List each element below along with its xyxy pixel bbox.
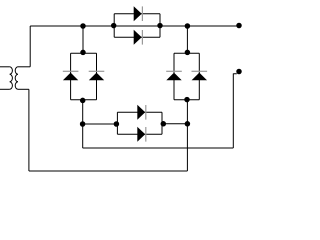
left arm frame (parallel diode pair branches) [71,53,97,100]
diode D6 (right arm right branch) [192,71,208,80]
diode D2 (top arm lower) [134,30,143,45]
wire left arm bottom to node A [82,100,84,148]
wire left vertical from top bus to transformer secondary top [29,26,31,67]
wire bottom arm right to right vertical [162,123,187,125]
bottom arm frame (parallel diode pair branches) [117,112,162,134]
wire primary top lead [0,66,10,68]
node: bottom arm left [114,121,120,127]
wire right vertical (right arm bottom to bottom bus) [186,100,188,171]
node: right arm bottom [184,97,190,103]
top arm frame (parallel diode pair branches) [114,14,160,38]
node A: left junction [80,121,86,127]
diode D7 (bottom arm upper) [137,105,146,120]
wire feed top bus to left arm [82,26,84,53]
wire terminal 2 drop [233,74,237,149]
transformer T1 primary winding [10,67,13,90]
diode D5 (right arm left branch) [166,71,182,80]
diode D8 (bottom arm lower) [137,127,146,142]
wire node A to bottom arm left [83,123,118,125]
node: top arm left [111,23,117,29]
wire feed top bus to right arm [186,26,188,53]
wire secondary bottom lead [18,88,29,90]
node: top arm right [157,23,163,29]
wire bottom bus [29,170,188,172]
wire left bottom vertical [28,89,30,171]
node: top bus / left arm feed [80,23,86,29]
wire primary bottom lead [0,88,10,90]
node: left arm top [80,50,86,56]
transformer T1 secondary winding [15,67,18,90]
terminal 2 [236,69,242,75]
terminal 1 [236,23,242,29]
wire lower middle bus (node A to terminal drop) [83,147,234,149]
wire secondary top lead [18,66,30,68]
node: left arm bottom [80,98,86,104]
diode D1 (top arm upper) [134,6,143,21]
node B: right junction [185,121,191,127]
diode D3 (left arm left branch) [63,71,79,80]
diode D4 (left arm right branch) [89,71,105,80]
node: right arm top [185,50,191,56]
wire top bus [30,25,239,27]
right arm frame (parallel diode pair branches) [174,53,199,100]
node: top bus / right arm feed [185,23,191,29]
node: bottom arm right [161,121,167,127]
